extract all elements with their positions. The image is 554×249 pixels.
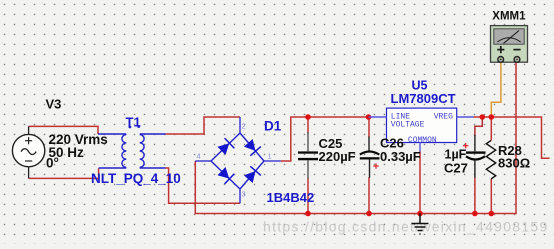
junction node C25 bottom bbox=[305, 211, 311, 217]
junction node R28 top bbox=[489, 114, 495, 120]
capacitor C26 bbox=[360, 137, 380, 178]
bridge rectifier D1 bbox=[195, 117, 280, 203]
svg-text:4: 4 bbox=[197, 152, 201, 161]
svg-text:D1: D1 bbox=[264, 119, 282, 134]
ground bbox=[412, 214, 429, 235]
source V3 bbox=[12, 126, 44, 178]
transformer T1 bbox=[98, 134, 166, 168]
value 220 Vrms 50 Hz 0deg bbox=[46, 132, 108, 171]
multimeter XMM1 bbox=[491, 26, 528, 63]
wire V3 top to T1 primary top bbox=[29, 126, 98, 134]
C27 polarity plus bbox=[463, 143, 468, 148]
wire T1 secondary bottom to bridge pin 3 bbox=[166, 168, 241, 203]
wire T1 secondary top to bridge pin 2 bbox=[166, 117, 241, 134]
junction node C26 top bbox=[366, 114, 372, 120]
svg-text:0.33µF: 0.33µF bbox=[380, 149, 421, 164]
diamond bbox=[211, 133, 264, 189]
capacitor C25 bbox=[298, 132, 318, 179]
svg-text:T1: T1 bbox=[126, 115, 141, 130]
wire bridge pin 4 to ground rail bbox=[195, 62, 516, 214]
junction node ground rail bbox=[417, 211, 423, 217]
junction node R28 bottom bbox=[489, 211, 495, 217]
svg-text:VREG: VREG bbox=[434, 113, 453, 122]
svg-text:XMM1: XMM1 bbox=[492, 11, 526, 23]
wire U5 common to rail bbox=[419, 151, 421, 213]
svg-text:220µF: 220µF bbox=[319, 149, 356, 164]
wire C27 bottom bbox=[474, 177, 476, 213]
junction node C27 bottom bbox=[472, 211, 478, 217]
diode lower-right bbox=[243, 166, 261, 184]
pin 4 lead bbox=[195, 160, 211, 162]
svg-text:1: 1 bbox=[268, 152, 272, 161]
junction node C27 top bbox=[480, 114, 486, 120]
wire C25 bottom bbox=[307, 178, 309, 213]
capacitor C27 bbox=[463, 135, 486, 178]
resistor R28 bbox=[486, 141, 495, 179]
diode upper-right bbox=[243, 138, 261, 156]
svg-text:V3: V3 bbox=[46, 97, 62, 112]
bridge pin numbers bbox=[197, 122, 272, 199]
wire bridge pin 1 to +DC rail bbox=[281, 117, 368, 161]
svg-text:VOLTAGE: VOLTAGE bbox=[391, 120, 425, 129]
wire C26 bottom bbox=[368, 177, 370, 213]
wire R28 bottom bbox=[490, 179, 492, 214]
junction node C26 bottom bbox=[366, 211, 372, 217]
svg-text:LM7809CT: LM7809CT bbox=[391, 91, 456, 106]
svg-text:NLT_PQ_4_10: NLT_PQ_4_10 bbox=[91, 171, 181, 186]
pin 2 lead bbox=[239, 117, 241, 133]
svg-text:830Ω: 830Ω bbox=[498, 156, 530, 171]
svg-text:https://blog.csdn.net/weixin_4: https://blog.csdn.net/weixin_44908159 bbox=[263, 219, 549, 235]
regulator U5 LM7809CT bbox=[369, 108, 474, 151]
svg-text:1µF: 1µF bbox=[445, 148, 467, 162]
svg-text:3: 3 bbox=[242, 190, 246, 199]
wire V3 bottom to T1 primary bottom bbox=[29, 168, 99, 178]
svg-text:1B4B42: 1B4B42 bbox=[267, 190, 315, 205]
svg-text:COMMON: COMMON bbox=[408, 136, 437, 145]
diode upper-left bbox=[217, 138, 235, 156]
wire C25 top bbox=[307, 117, 309, 134]
diode lower-left bbox=[217, 166, 235, 184]
wire C27 top jog bbox=[475, 117, 482, 136]
junction node C25 top bbox=[305, 114, 311, 120]
pin 3 lead bbox=[239, 189, 241, 203]
wire C26 top bbox=[368, 117, 370, 138]
svg-text:C27: C27 bbox=[444, 161, 468, 176]
wire U5 output rail bbox=[474, 117, 550, 158]
wire R28 top bbox=[490, 117, 492, 141]
pin 1 lead bbox=[264, 160, 281, 162]
T1 phase dots bbox=[129, 126, 132, 129]
svg-text:0°: 0° bbox=[46, 156, 59, 171]
svg-text:2: 2 bbox=[242, 122, 246, 131]
C26 polarity plus bbox=[373, 163, 378, 168]
wire XMM1 plus (orange) bbox=[491, 62, 501, 117]
